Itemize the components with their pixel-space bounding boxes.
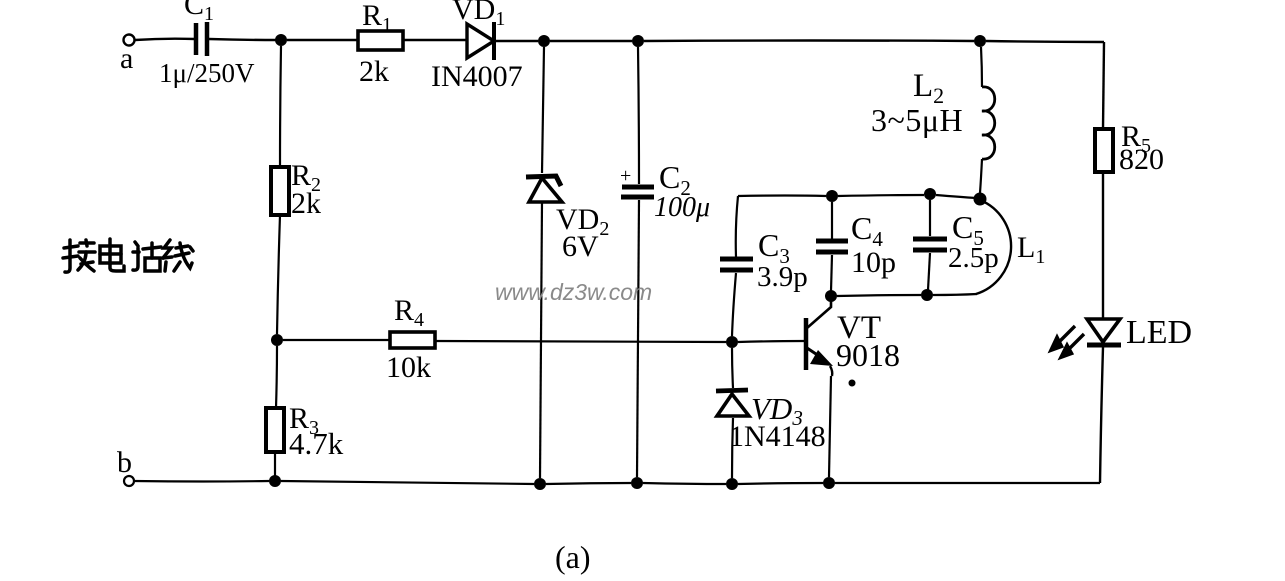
resistor R2 — [271, 159, 321, 220]
svg-text:a: a — [120, 42, 133, 75]
svg-text:4.7k: 4.7k — [289, 426, 344, 461]
wire emitter to node J — [829, 376, 831, 477]
capacitor C5 — [913, 209, 999, 274]
zener diode VD2 — [526, 176, 609, 263]
node B junction — [538, 35, 550, 47]
wire R3 to node F — [274, 452, 276, 476]
LED D1 — [1087, 314, 1192, 351]
svg-text:3~5μH: 3~5μH — [871, 102, 963, 138]
svg-text:b: b — [117, 446, 132, 479]
wire node A down to R2 — [280, 46, 281, 167]
node N junction — [974, 193, 987, 206]
char dian — [108, 239, 112, 264]
node H junction — [631, 477, 643, 489]
char jie — [65, 240, 70, 272]
wire R4 to node K — [435, 341, 726, 342]
node E to R4 wire — [283, 339, 390, 341]
svg-text:10k: 10k — [386, 351, 431, 384]
svg-text:www.dz3w.com: www.dz3w.com — [495, 279, 652, 305]
wire a to C1 — [135, 39, 195, 40]
bottom wire node J to corner — [835, 482, 1100, 484]
svg-text:R4: R4 — [394, 294, 424, 331]
diode VD1 — [431, 0, 523, 93]
top rail node L to node M — [838, 195, 924, 196]
resistor R4 — [386, 294, 435, 384]
svg-text:(a): (a) — [555, 539, 591, 575]
wire node M down to C5 — [929, 200, 931, 236]
node I junction — [726, 478, 738, 490]
capacitor C1 — [159, 0, 255, 88]
wire VD3 to node I — [732, 418, 733, 478]
wire R1 to VD1 — [403, 39, 467, 41]
svg-text:+: + — [620, 165, 631, 187]
node O junction — [825, 290, 837, 302]
transistor VT base bar — [804, 318, 809, 370]
node K junction — [726, 336, 738, 348]
wire node C to node D — [644, 39, 974, 42]
wire node K down to VD3 — [732, 348, 733, 388]
node C junction — [632, 35, 644, 47]
terminal b — [117, 446, 134, 486]
wire node C down to C2 — [638, 47, 639, 184]
char xian — [163, 240, 171, 258]
wire C3 to node K — [732, 273, 736, 336]
transistor VT emitter — [807, 348, 822, 358]
terminal a — [120, 35, 135, 76]
wire node E down to R3 — [276, 346, 277, 408]
bottom wire node H to node I — [643, 483, 726, 484]
inductor L2 — [871, 68, 995, 159]
svg-text:6V: 6V — [562, 230, 599, 263]
node E junction — [271, 334, 283, 346]
top rail node M to node N — [936, 195, 976, 198]
node G junction — [534, 478, 546, 490]
svg-text:C4: C4 — [851, 210, 883, 251]
transistor VT collector — [807, 299, 831, 328]
node M junction — [924, 188, 936, 200]
wire L2 to node N — [980, 159, 982, 193]
wire top rail corner down to C3 — [736, 196, 738, 257]
wire bottom right vertical — [1099, 482, 1101, 484]
transistor VT labels — [836, 310, 900, 373]
wire b to node F — [134, 480, 269, 483]
capacitor C3 — [720, 227, 808, 293]
capacitor C2 — [620, 159, 710, 223]
bottom wire node F to node G — [281, 481, 534, 484]
wire VD2 to node G — [540, 202, 542, 478]
diode VD3 — [716, 390, 826, 453]
inductor loop L1 — [976, 200, 1045, 294]
resistor R5 — [1095, 120, 1164, 176]
wire C1 to node A — [209, 39, 276, 40]
capacitor C4 — [816, 210, 896, 279]
wire node A to R1 — [287, 39, 358, 41]
telephone line label — [63, 239, 193, 272]
wire node L down to C4 — [831, 202, 833, 241]
LED emission arrow 1 — [1055, 326, 1075, 346]
svg-text:1N4148: 1N4148 — [729, 420, 826, 453]
svg-text:2.5p: 2.5p — [948, 242, 999, 274]
svg-text:L1: L1 — [1017, 231, 1045, 268]
resistor R1 — [358, 0, 403, 88]
node F junction — [269, 475, 281, 487]
bottom rail node P to L1 — [933, 294, 977, 295]
ink dot — [849, 380, 856, 387]
bottom wire node I to node J — [738, 483, 823, 484]
node D junction — [974, 35, 986, 47]
wire corner down to R5 — [1103, 42, 1104, 129]
node J junction — [823, 477, 835, 489]
svg-text:3.9p: 3.9p — [757, 261, 808, 293]
LED emission arrow 2 — [1066, 334, 1084, 352]
wire node K to transistor base — [738, 341, 804, 342]
svg-text:IN4007: IN4007 — [431, 60, 523, 93]
wire R2 to node E — [277, 215, 280, 334]
svg-text:820: 820 — [1119, 143, 1164, 176]
node A junction — [275, 34, 287, 46]
node L junction — [826, 190, 838, 202]
svg-text:9018: 9018 — [836, 337, 900, 373]
wire C4 to node O — [831, 255, 832, 291]
wire LED to bottom right corner — [1100, 347, 1103, 483]
wire node B to node C — [550, 40, 632, 42]
char hua — [135, 242, 138, 246]
bottom rail node O to node P — [837, 295, 921, 296]
wire C2 to node H — [637, 200, 639, 477]
wire C5 to node P — [928, 253, 930, 290]
svg-text:R1: R1 — [362, 0, 392, 36]
resistor R3 — [266, 402, 344, 461]
wire VD1 to node B — [496, 40, 538, 42]
top rail C3 corner to node L — [738, 194, 826, 197]
wire node D to top right corner — [986, 41, 1104, 42]
wire node D down to L2 — [981, 47, 982, 87]
svg-text:1μ/250V: 1μ/250V — [159, 58, 255, 88]
wire node B down to VD2 — [542, 47, 544, 173]
svg-text:100μ: 100μ — [654, 192, 710, 223]
svg-text:VD1: VD1 — [452, 0, 505, 30]
svg-text:2k: 2k — [291, 187, 321, 220]
bottom wire node G to node H — [546, 483, 631, 484]
svg-text:C1: C1 — [184, 0, 214, 25]
svg-text:10p: 10p — [851, 246, 896, 279]
svg-text:2k: 2k — [359, 55, 389, 88]
svg-text:LED: LED — [1126, 314, 1192, 351]
node P junction — [921, 289, 933, 301]
wire R5 to LED — [1102, 172, 1104, 318]
